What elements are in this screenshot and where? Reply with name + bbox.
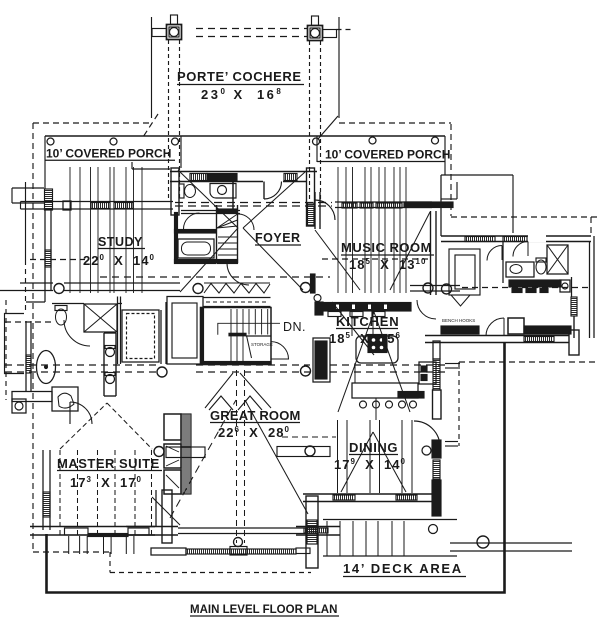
pillar P2 dashed projection — [310, 41, 321, 200]
dining east post — [422, 446, 431, 455]
ceiling dashed line C — [100, 276, 330, 278]
hall bath bottom wall — [175, 260, 216, 264]
wing left wall — [440, 175, 442, 236]
master bath wall south — [12, 392, 52, 402]
wing door arc — [487, 246, 502, 261]
porte cochere left hip diagonal — [143, 114, 158, 137]
study window wall bottom — [21, 208, 174, 210]
storage room wall — [246, 335, 271, 337]
kitchen counter end circle — [314, 295, 321, 302]
dining bottom window W15 — [396, 495, 417, 500]
deck door post right — [306, 496, 318, 568]
svg-text:230 X 168: 230 X 168 — [201, 87, 283, 102]
dining east window W16b — [433, 460, 440, 479]
porte cochere dashed beam upper — [196, 29, 307, 37]
master bath door arc — [64, 320, 90, 346]
study wall left cap — [63, 201, 71, 210]
label MAIN LEVEL FLOOR PLAN — [190, 604, 339, 616]
great room bottom window W13 — [128, 528, 149, 535]
svg-text:STUDY: STUDY — [98, 235, 143, 249]
front door swing — [264, 182, 282, 200]
porte cochere dashed beam right — [337, 29, 353, 31]
kitchen peninsula — [352, 383, 424, 398]
label DINING — [349, 440, 398, 455]
master closet outline — [167, 297, 203, 365]
right porch step outline — [441, 136, 513, 233]
wing paper box — [560, 280, 570, 292]
left side porch edge — [25, 182, 27, 313]
dining beams — [338, 420, 413, 493]
deck door post left — [162, 490, 172, 543]
left wall cap top — [45, 189, 53, 210]
stair2 west edge — [216, 205, 218, 263]
deck center post — [230, 538, 247, 556]
music wall right solid bar — [404, 202, 453, 208]
wing entry closet — [449, 249, 480, 295]
master bottom window W11 — [65, 528, 89, 535]
hall bath west wall — [175, 213, 178, 264]
master deck posts — [69, 536, 134, 554]
svg-text:173 X 170: 173 X 170 — [70, 475, 142, 490]
label FOYER — [255, 231, 301, 245]
right porch post A — [369, 137, 376, 144]
stair2 door arc high — [238, 214, 254, 230]
porch step lines — [132, 162, 170, 169]
kitchen beams — [352, 310, 376, 420]
label MASTER SUITE — [57, 456, 162, 471]
powder wall east — [232, 182, 234, 211]
wing counter dark — [509, 280, 561, 287]
stairs top zigzag — [204, 283, 270, 293]
hall bath top wall — [175, 230, 216, 234]
master bath north wall — [52, 303, 122, 305]
music vault diag — [315, 212, 430, 290]
wing ceiling dashed — [462, 287, 588, 289]
wing bench dark right — [524, 326, 571, 334]
left stoop — [12, 188, 44, 203]
stair2 block east edge — [237, 205, 239, 263]
dining east bench lines — [445, 364, 460, 369]
powder toilet — [179, 184, 196, 198]
roofline dashed right step horizontal — [451, 216, 599, 218]
post great room NE — [301, 283, 311, 293]
label KITCHEN — [336, 314, 399, 329]
left wall window W10 — [43, 492, 50, 517]
study wall window W4 — [114, 203, 133, 209]
svg-text:STORAGE: STORAGE — [251, 342, 273, 347]
ceiling dashed line D2 — [5, 371, 450, 373]
svg-text:BENCH HOOKS: BENCH HOOKS — [442, 318, 475, 323]
study window wall top — [21, 202, 174, 210]
dining bottom wall — [303, 494, 441, 502]
great room east bar — [277, 446, 330, 457]
left wall mid — [26, 321, 31, 391]
ceiling dashed line D1 — [5, 364, 450, 366]
post kitchen E — [442, 284, 452, 294]
wing sink vanity — [506, 262, 534, 277]
stair2 winders — [217, 214, 238, 228]
fireplace cabinets — [164, 414, 181, 494]
wing bottom window W17 — [524, 337, 554, 342]
label GREAT ROOM — [210, 408, 301, 423]
hall bath tub — [178, 239, 214, 258]
wing bottom wall — [425, 336, 569, 343]
svg-text:DN.: DN. — [283, 320, 306, 334]
fireplace hatch column — [181, 414, 191, 494]
svg-text:179 X 140: 179 X 140 — [334, 457, 406, 472]
wing top wall outer — [441, 235, 591, 237]
porte cochere post circle — [313, 138, 320, 145]
label MUSIC ROOM — [341, 240, 434, 255]
kitchen west dark upper — [315, 302, 323, 315]
dining bottom window W14 — [333, 495, 355, 500]
pillar P1 cross — [152, 15, 182, 40]
study ceiling beams — [70, 167, 142, 293]
right porch inner step — [441, 182, 457, 199]
foyer front wall inner — [170, 181, 263, 183]
stair2 door arc low — [227, 263, 249, 285]
wing east interior wall — [571, 277, 577, 338]
wing SE corner post — [569, 330, 579, 355]
great room dashed ceiling line — [282, 436, 336, 438]
roofline dashed right wing vertical — [590, 217, 592, 236]
great room leader V — [205, 373, 271, 408]
ceiling dashed line A1 — [175, 202, 332, 204]
music wall window W6b — [376, 203, 402, 208]
master bath sink wall — [104, 333, 116, 396]
svg-text:DINING: DINING — [349, 440, 398, 455]
stairs landing band — [203, 298, 271, 307]
pillar P2 cross — [308, 16, 337, 41]
roofline dashed bottom deck horizontal — [110, 572, 311, 574]
left porch post B — [110, 138, 117, 145]
porte cochere right edge — [338, 17, 340, 118]
right porch left cap — [316, 136, 318, 162]
music window wall top — [335, 201, 432, 203]
deck post circle dining — [429, 525, 438, 534]
post great room NW — [193, 284, 203, 294]
great room bottom wall left — [126, 527, 178, 536]
master closet wall — [118, 297, 121, 365]
svg-text:185 X 1310: 185 X 1310 — [349, 257, 426, 272]
storage door arc — [271, 342, 289, 359]
svg-text:226 X 280: 226 X 280 — [218, 425, 290, 440]
left wall window W8 — [45, 250, 51, 267]
stairs mid rail dark — [229, 333, 246, 336]
pillar P1 dashed projection — [169, 40, 180, 200]
wing cabinet marks — [512, 289, 548, 293]
wing bench dark left — [441, 326, 479, 334]
porte cochere right hip diagonal — [318, 116, 338, 139]
svg-text:MASTER SUITE: MASTER SUITE — [57, 456, 160, 471]
front wall window W2 — [284, 174, 297, 181]
master bottom wall — [30, 527, 155, 536]
mid wall band left — [0, 283, 180, 291]
master WIC — [122, 310, 159, 362]
fireplace hearth — [154, 447, 205, 458]
roofline dashed far-left vertical — [5, 300, 7, 400]
stairs left wall dark — [201, 308, 204, 365]
laundry chute — [12, 399, 26, 413]
roofline dashed bottom connector — [109, 552, 111, 573]
deck steps band — [323, 520, 457, 557]
right porch post B — [432, 137, 439, 144]
roofline dashed right step vertical — [450, 124, 452, 216]
post great room SE — [301, 366, 311, 376]
svg-text:14’ DECK AREA: 14’ DECK AREA — [343, 561, 463, 576]
dining east wall top caps — [433, 341, 440, 359]
master WIC east wall — [161, 302, 166, 364]
stairs direction line — [218, 323, 280, 334]
svg-text:10’ COVERED PORCH: 10’ COVERED PORCH — [46, 147, 171, 161]
stairs treads upper — [249, 309, 268, 335]
foyer front wall inner right — [283, 181, 306, 183]
dining east window W16a — [433, 359, 440, 390]
svg-text:185 X 156: 185 X 156 — [329, 331, 401, 346]
wing toilet — [536, 258, 546, 274]
front wall solid segment — [207, 174, 237, 181]
stairs outline — [201, 308, 272, 365]
roofline dashed bottom-left horizontal — [33, 551, 110, 553]
master beams dashed — [60, 450, 152, 535]
post left wall — [54, 284, 64, 294]
master sink lower — [105, 373, 115, 384]
left porch top edge — [45, 135, 445, 137]
sliding deck doors — [178, 528, 306, 534]
label DECK — [343, 561, 466, 577]
wing top wall inner — [441, 241, 591, 243]
left porch post A — [47, 138, 54, 145]
roofline dashed below wing horizontal — [459, 361, 599, 363]
wing top door opening — [528, 235, 546, 243]
kitchen counter marks — [328, 312, 385, 317]
wing shower X — [547, 245, 568, 274]
stairs bottom dark — [201, 362, 272, 365]
wing cabinet box — [508, 318, 524, 334]
left porch post C — [172, 138, 179, 145]
svg-text:10’ COVERED PORCH: 10’ COVERED PORCH — [325, 148, 450, 162]
post kitchen W — [423, 283, 433, 293]
left porch right cap — [180, 136, 182, 168]
roofline dashed top-left horizontal — [33, 122, 151, 124]
kitchen NE door arc — [417, 300, 436, 319]
foyer vault X — [178, 170, 305, 292]
left wall upper — [45, 210, 51, 290]
study wall window W3 — [91, 203, 110, 209]
dining east door arc — [414, 421, 440, 447]
fireplace deck diagonal — [152, 497, 180, 525]
powder sink — [210, 184, 236, 199]
dining east wall dark mid — [432, 440, 441, 458]
ceiling dashed line A2 — [175, 205, 332, 207]
wing hall door arc — [486, 318, 504, 336]
great room chevrons — [209, 396, 262, 410]
dining east lines2 — [445, 442, 458, 447]
kitchen top counter dark — [321, 303, 411, 312]
foyer front wall left cap — [171, 168, 179, 215]
foyer door arc to music — [315, 200, 335, 220]
svg-text:GREAT ROOM: GREAT ROOM — [210, 408, 301, 423]
great room vault east solid — [245, 400, 308, 514]
master bottom threshold — [88, 534, 128, 537]
deck rail right — [450, 536, 572, 551]
dining east wall upper box — [433, 390, 442, 419]
deck rail left — [151, 548, 310, 555]
left wall window W9 — [26, 355, 31, 373]
fireplace side wall — [155, 490, 157, 527]
left wall connector — [26, 290, 45, 302]
roofline dashed left vertical — [32, 123, 34, 552]
stair2 bottom cap — [217, 260, 238, 264]
label right porch — [317, 148, 450, 162]
stair2 treads — [218, 237, 238, 255]
front wall right cap — [307, 168, 315, 226]
stairs treads full — [231, 309, 243, 363]
wing top door arc — [513, 242, 528, 257]
great room bottom wall right — [296, 527, 340, 536]
music east wall — [431, 211, 437, 295]
porte cochere left edge — [151, 17, 153, 118]
music wall window W5 — [342, 203, 357, 208]
front wall window W1 — [190, 174, 207, 181]
roofline dashed right-top horizontal — [339, 122, 451, 124]
svg-text:PORTE’ COCHERE: PORTE’ COCHERE — [177, 69, 302, 84]
music west wall dark — [311, 274, 316, 293]
kitchen vault X — [332, 302, 410, 412]
wing right wall — [590, 236, 595, 338]
foyer front wall outer — [170, 171, 317, 173]
kitchen bar stools — [360, 401, 417, 408]
label STUDY — [98, 235, 145, 249]
dining east wall dark lower — [432, 480, 441, 516]
hall bath door arc west — [184, 213, 200, 229]
great room bottom right window — [304, 528, 328, 533]
wing closet V door — [451, 295, 470, 306]
wing top wall window W7 — [465, 237, 495, 242]
great room dashed vault — [170, 400, 236, 518]
fireplace speaker diagonals — [166, 446, 179, 488]
wing interior wall — [502, 242, 504, 284]
stair2 top cap — [217, 209, 238, 213]
wing top wall window W7b — [503, 237, 527, 242]
post great room SW — [157, 367, 167, 377]
ceiling dashed line E — [5, 321, 55, 323]
kitchen island — [356, 335, 398, 364]
master bath shower — [84, 304, 117, 332]
master sink upper — [105, 346, 115, 357]
ceiling dashed line B — [30, 259, 85, 261]
music ceiling beams — [338, 167, 406, 293]
label PORTE COCHERE — [177, 69, 304, 85]
music window wall bottom — [335, 207, 432, 209]
kitchen left counter — [313, 338, 330, 382]
svg-text:MUSIC ROOM: MUSIC ROOM — [341, 240, 432, 255]
master vanity — [52, 387, 78, 411]
deck thick border — [47, 342, 505, 593]
master bath tub — [37, 351, 56, 384]
powder wall south — [181, 211, 240, 214]
dining vault — [341, 432, 406, 492]
svg-text:MAIN LEVEL FLOOR PLAN: MAIN LEVEL FLOOR PLAN — [190, 604, 337, 616]
great room beams dashed — [237, 370, 245, 543]
storage door leaf — [247, 336, 252, 358]
music wall window W6 — [360, 203, 373, 208]
front door leaf — [263, 182, 265, 200]
svg-text:FOYER: FOYER — [255, 231, 301, 245]
label left porch — [45, 147, 175, 161]
kitchen left wall — [315, 192, 320, 229]
master suite dashed vault — [60, 403, 152, 449]
left wall lower — [43, 450, 50, 530]
ceiling dashed line B music — [322, 258, 428, 260]
svg-text:KITCHEN: KITCHEN — [336, 314, 399, 329]
kitchen fridge — [419, 362, 436, 384]
master bath toilet — [55, 306, 67, 326]
left bay outline — [5, 314, 25, 374]
svg-text:220 X 140: 220 X 140 — [83, 253, 155, 268]
roofline dashed wing left vertical — [458, 362, 460, 446]
left porch left edge — [44, 136, 46, 189]
master suite door arc — [70, 402, 92, 424]
mid wall band right — [410, 286, 460, 292]
